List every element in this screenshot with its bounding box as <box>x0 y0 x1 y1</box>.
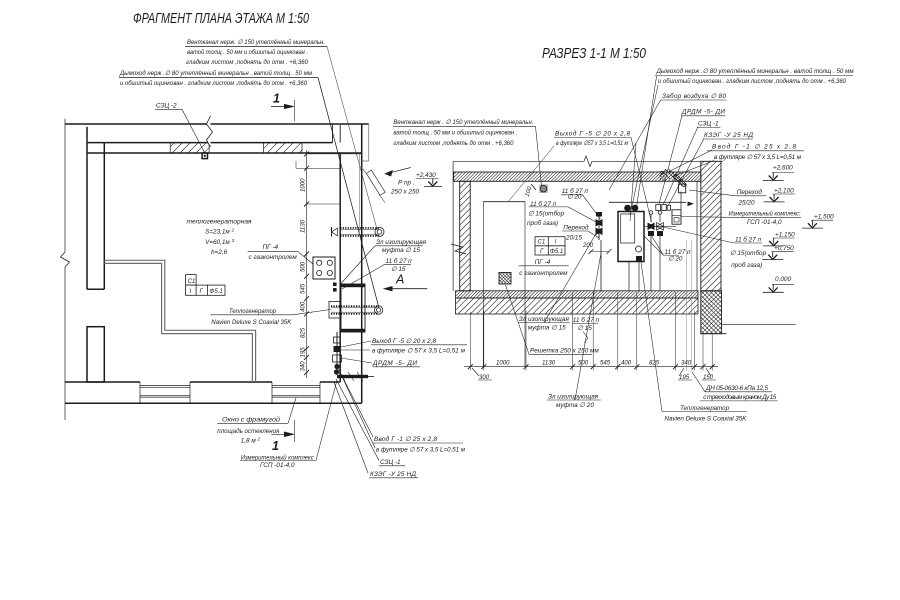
left wall outer face <box>86 127 88 290</box>
svg-text:гладким листом ,поднять до отм: гладким листом ,поднять до отм . +6,360 <box>393 139 513 147</box>
svg-text:Ввод Г -1 ∅ 25 х 2,8: Ввод Г -1 ∅ 25 х 2,8 <box>712 143 796 151</box>
small arrow fitting <box>688 202 695 207</box>
svg-text:ГСП -01-4,0: ГСП -01-4,0 <box>260 462 295 469</box>
svg-text:+1,150: +1,150 <box>775 232 795 239</box>
svg-text:С1: С1 <box>188 278 196 285</box>
gas fittings below boiler <box>336 332 338 375</box>
right wall inner face <box>696 181 698 290</box>
section top annotations <box>393 67 854 161</box>
svg-text:400: 400 <box>300 301 307 312</box>
svg-text:с газконтролем: с газконтролем <box>519 270 568 277</box>
svg-text:с трехходовым краном Ду 15: с трехходовым краном Ду 15 <box>703 393 776 401</box>
break symbol top wall <box>207 116 213 147</box>
svg-text:545: 545 <box>600 360 611 367</box>
plan table C1 <box>186 275 225 296</box>
coaxial flue upper (plan) <box>340 227 384 236</box>
section bottom annotations <box>519 316 777 422</box>
svg-text:РАЗРЕЗ 1-1 М 1:50: РАЗРЕЗ 1-1 М 1:50 <box>542 46 646 62</box>
annotation vent duct (plan, top) <box>186 38 325 66</box>
svg-text:гладким листом ,поднять до отм: гладким листом ,поднять до отм . +6,360 <box>186 58 308 66</box>
svg-text:Выход Г -5 ∅ 20 х 2,8: Выход Г -5 ∅ 20 х 2,8 <box>555 130 630 138</box>
interior partition (grey double line) <box>104 260 255 382</box>
svg-text:СЗЦ -2: СЗЦ -2 <box>156 103 177 110</box>
svg-text:+2,430: +2,430 <box>416 172 436 179</box>
svg-text:и обшитый оцинкован . гладким: и обшитый оцинкован . гладким листом ,по… <box>658 77 846 85</box>
svg-text:КЗЭГ -У 25 НД: КЗЭГ -У 25 НД <box>370 471 417 478</box>
boiler (section) <box>618 212 644 262</box>
svg-text:+1,500: +1,500 <box>814 214 834 221</box>
wall top outer line <box>65 123 369 125</box>
plan bottom-right leader fan <box>334 341 379 473</box>
svg-text:Р пр .: Р пр . <box>398 180 415 187</box>
section right annotations <box>729 188 801 269</box>
gas inlet pipe through wall <box>337 375 368 378</box>
svg-text:с газконтролем: с газконтролем <box>249 254 298 261</box>
svg-text:Вентканал нерж. ∅ 150 утеплён: Вентканал нерж. ∅ 150 утеплённый минерал… <box>187 38 325 46</box>
svg-text:0,000: 0,000 <box>775 276 791 283</box>
PG-4 leader <box>248 251 313 264</box>
valve symbol at flue <box>332 228 338 236</box>
floor slab hatched <box>456 291 699 298</box>
svg-text:400: 400 <box>621 360 632 367</box>
svg-text:Окно с фрамугой: Окно с фрамугой <box>222 416 280 424</box>
left wall inner face <box>103 143 105 290</box>
section leader lines from top annotations <box>508 76 714 222</box>
svg-text:муфта ∅ 15: муфта ∅ 15 <box>382 247 420 254</box>
vent block hatched 2 <box>264 143 303 153</box>
leader vent annotation to duct <box>327 47 377 230</box>
section bottom dimension line <box>464 292 718 381</box>
svg-text:25/20: 25/20 <box>738 200 755 207</box>
svg-text:в футляре ∅ 57 х 3,5 L=0,51: в футляре ∅ 57 х 3,5 L=0,51 м <box>372 348 466 355</box>
svg-text:Выход Г -5 ∅ 20 х 2,8: Выход Г -5 ∅ 20 х 2,8 <box>372 337 436 345</box>
svg-text:500: 500 <box>578 360 589 367</box>
svg-text:1: 1 <box>273 92 280 106</box>
svg-text:1130: 1130 <box>300 219 307 233</box>
bottom wall outer line <box>65 402 362 404</box>
wall top inner line b <box>87 152 362 154</box>
svg-text:теплогенераторная: теплогенераторная <box>187 219 253 226</box>
top cut line with break <box>454 160 584 162</box>
svg-text:муфта ∅ 15: муфта ∅ 15 <box>528 325 566 332</box>
svg-text:+2,600: +2,600 <box>773 165 793 172</box>
svg-text:ПГ -4: ПГ -4 <box>263 244 279 251</box>
svg-text:ватой толщ . 50 мм и обшитый: ватой толщ . 50 мм и обшитый оцинкован . <box>187 48 308 56</box>
equipment mounting rail <box>609 201 686 203</box>
ticks <box>304 151 309 375</box>
vent pipe end circle <box>539 184 548 193</box>
wall top inner line a <box>87 142 333 144</box>
svg-text:С1: С1 <box>538 239 546 246</box>
extension stubs <box>307 153 362 155</box>
svg-text:ДН 05-0630-6 кПа 12,5: ДН 05-0630-6 кПа 12,5 <box>705 385 768 392</box>
pipes below boiler <box>628 261 630 292</box>
svg-text:Зл изолирующая: Зл изолирующая <box>376 239 427 246</box>
svg-text:Решетка 250 х 250 мм: Решетка 250 х 250 мм <box>530 348 599 355</box>
svg-text:ДРДМ -5- ДИ: ДРДМ -5- ДИ <box>372 360 417 367</box>
svg-text:Дымоход нерж .∅ 80 утеплённый: Дымоход нерж .∅ 80 утеплённый минеральн … <box>119 69 313 77</box>
dim 100 rotated <box>524 185 534 197</box>
svg-text:площадь остекления: площадь остекления <box>217 427 280 435</box>
svg-text:Ввод Г -1 ∅ 25 х 2,8: Ввод Г -1 ∅ 25 х 2,8 <box>374 435 437 443</box>
plan title <box>133 11 309 27</box>
left wall top corner <box>452 161 454 290</box>
svg-text:195: 195 <box>300 347 307 358</box>
level +1,150 <box>773 237 795 239</box>
ticks <box>468 364 715 369</box>
svg-text:муфта ∅ 20: муфта ∅ 20 <box>556 402 594 409</box>
ground hatched <box>456 298 699 314</box>
section title <box>542 46 646 62</box>
svg-text:I: I <box>190 288 192 295</box>
svg-text:Зл изолирующая: Зл изолирующая <box>548 394 599 401</box>
svg-text:500: 500 <box>300 261 307 272</box>
svg-text:S=23,1м 2: S=23,1м 2 <box>205 228 235 236</box>
window 2 <box>272 382 320 403</box>
window 1 <box>140 382 190 403</box>
right wall outer face <box>361 124 363 403</box>
svg-text:Переход: Переход <box>563 224 589 232</box>
svg-text:в футляре ∅ 57 х 3,5 L=0,51: в футляре ∅ 57 х 3,5 L=0,51 м <box>714 154 802 161</box>
svg-text:Переход: Переход <box>737 188 763 196</box>
level 0,000 <box>772 283 794 285</box>
vent block hatched 1 <box>170 143 209 153</box>
right wall inner face <box>339 153 341 382</box>
svg-text:20/15: 20/15 <box>565 235 582 242</box>
leader chimney annotation to flue <box>318 78 379 309</box>
svg-text:в футляре ∅ 57 х 3,5 L=0,51: в футляре ∅ 57 х 3,5 L=0,51 м <box>376 447 466 454</box>
left wall hatched <box>460 181 471 290</box>
section mark 1 (top) <box>273 92 280 106</box>
svg-text:250 х 250: 250 х 250 <box>390 189 420 196</box>
left wall opening cap <box>87 288 104 290</box>
svg-text:825: 825 <box>300 327 307 338</box>
boiler (plan) <box>341 284 365 332</box>
svg-text:340: 340 <box>681 360 692 367</box>
window annotation + section mark 1 bottom <box>217 416 280 454</box>
plan boiler label <box>211 308 292 326</box>
plan equipment <box>313 227 384 381</box>
plan room labels <box>187 219 298 262</box>
wall devices row <box>656 205 661 211</box>
svg-text:11 б 27 п: 11 б 27 п <box>386 257 413 265</box>
svg-text:I: I <box>555 239 557 246</box>
corner duct 250x250 <box>362 124 369 161</box>
svg-text:825: 825 <box>649 360 660 367</box>
svg-text:КЗЭГ -У 25 НД: КЗЭГ -У 25 НД <box>704 132 754 139</box>
A arrow <box>383 286 393 291</box>
svg-text:СЗЦ -1: СЗЦ -1 <box>380 459 401 466</box>
svg-text:ДРДМ -5- ДИ: ДРДМ -5- ДИ <box>681 109 725 116</box>
svg-text:А: А <box>395 273 404 287</box>
small leaders for below labels <box>472 368 479 376</box>
right wall foundation hatched <box>701 291 722 334</box>
CZC-2 label <box>156 103 177 110</box>
labels rotated <box>300 0 307 372</box>
coaxial flue lower (plan) <box>329 302 383 319</box>
ceiling slab hatched <box>454 172 701 181</box>
svg-text:Вентканал нерж . ∅ 150 утеплё: Вентканал нерж . ∅ 150 утеплённый минера… <box>393 118 533 126</box>
vent shaft rectangle <box>483 201 525 203</box>
extension lines <box>469 312 471 371</box>
izmeritelny complex label (plan) <box>241 453 315 469</box>
svg-text:Теплогенератор: Теплогенератор <box>229 308 276 315</box>
measuring complex device <box>672 210 681 224</box>
duct inner line <box>359 153 361 232</box>
svg-text:ФРАГМЕНТ ПЛАНА ЭТАЖА М 1:50: ФРАГМЕНТ ПЛАНА ЭТАЖА М 1:50 <box>133 11 309 27</box>
gas stove PG-4 <box>313 257 335 279</box>
svg-text:Navien Deluxe S Coaxial 35K: Navien Deluxe S Coaxial 35K <box>664 415 747 422</box>
svg-text:11 б 27 п: 11 б 27 п <box>735 236 762 244</box>
svg-text:h=2,6: h=2,6 <box>211 249 228 256</box>
svg-text:1: 1 <box>272 439 279 453</box>
svg-text:∅ 15: ∅ 15 <box>577 325 592 332</box>
right wall hatched <box>701 161 721 290</box>
pipe connection dots <box>333 283 337 287</box>
left axis line with break <box>64 119 66 252</box>
level +2,600 <box>772 172 794 174</box>
shaft edge vertical <box>332 124 334 143</box>
svg-text:Теплогенератор: Теплогенератор <box>680 405 729 412</box>
gas pipe bend with 200 stub <box>600 240 602 292</box>
svg-text:1000: 1000 <box>300 178 307 192</box>
svg-text:545: 545 <box>300 283 307 294</box>
svg-text:Дымоход нерж .∅ 80 утеплённый: Дымоход нерж .∅ 80 утеплённый минеральн … <box>656 67 855 75</box>
gas pipe left of boiler with valves <box>598 214 600 240</box>
plan right-top: Rpr duct + level <box>361 167 443 203</box>
level +0,750 <box>772 251 794 253</box>
svg-text:ГСП -01-4,0: ГСП -01-4,0 <box>747 219 782 226</box>
svg-text:и обшитый оцинкован . гладким: и обшитый оцинкован . гладким листом ,по… <box>120 79 307 87</box>
svg-text:+2,100: +2,100 <box>774 188 794 195</box>
svg-text:Измерительный комплекс:: Измерительный комплекс: <box>729 210 801 218</box>
section equipment <box>524 169 694 292</box>
svg-text:ПГ -4: ПГ -4 <box>535 259 551 266</box>
svg-text:проб газа): проб газа) <box>731 261 762 269</box>
svg-text:Измерительный комплекс: Измерительный комплекс <box>241 453 315 461</box>
svg-text:ватой толщ . 50 мм и обшитый: ватой толщ . 50 мм и обшитый оцинкован . <box>393 129 517 137</box>
valves right of boiler <box>650 214 652 222</box>
boiler pump <box>636 246 642 252</box>
svg-text:11 б 27 п: 11 б 27 п <box>573 316 600 324</box>
labels above <box>479 360 714 382</box>
plan annotations right middle <box>376 239 427 287</box>
section table C1 <box>535 237 565 255</box>
svg-text:в футляре ∅57 х 3,5 L=0,51 м: в футляре ∅57 х 3,5 L=0,51 м <box>556 140 628 147</box>
gas inlet sleeve through ceiling <box>665 169 683 187</box>
plan vertical dimension chain <box>296 0 362 378</box>
level +1,500 <box>811 219 833 221</box>
svg-text:Ф5.1: Ф5.1 <box>550 248 563 255</box>
ground line right <box>722 323 796 325</box>
level +2,100 <box>773 193 795 195</box>
svg-text:СЗЦ -1: СЗЦ -1 <box>698 121 719 128</box>
left pier <box>87 327 104 382</box>
vent grille / stove square (section) <box>499 273 511 285</box>
svg-text:∅ 20: ∅ 20 <box>668 256 683 263</box>
annotation chimney (plan, top) <box>119 69 313 87</box>
section mid annotations <box>519 187 691 277</box>
svg-text:∅ 15(отбор: ∅ 15(отбор <box>730 249 767 257</box>
svg-text:∅ 15(отбор: ∅ 15(отбор <box>528 210 565 218</box>
svg-text:1130: 1130 <box>542 360 556 367</box>
svg-text:Ф5.1: Ф5.1 <box>210 288 223 295</box>
break symbol left axis <box>61 252 70 267</box>
svg-text:Забор воздуха ∅ 80: Забор воздуха ∅ 80 <box>662 92 726 100</box>
dim 200 rotated near inlet <box>660 170 667 182</box>
svg-text:340: 340 <box>300 361 307 372</box>
break symbol left wall <box>451 244 466 254</box>
svg-text:проб газа): проб газа) <box>527 219 558 227</box>
svg-text:V=60,1м 3: V=60,1м 3 <box>205 238 235 246</box>
bottom wall inner line <box>65 381 140 383</box>
svg-text:1000: 1000 <box>496 360 510 367</box>
CZC-2 marker square <box>202 153 207 159</box>
svg-text:Navien Deluxe S Coaxial 35K: Navien Deluxe S Coaxial 35K <box>211 319 292 326</box>
section right levels <box>762 165 834 293</box>
